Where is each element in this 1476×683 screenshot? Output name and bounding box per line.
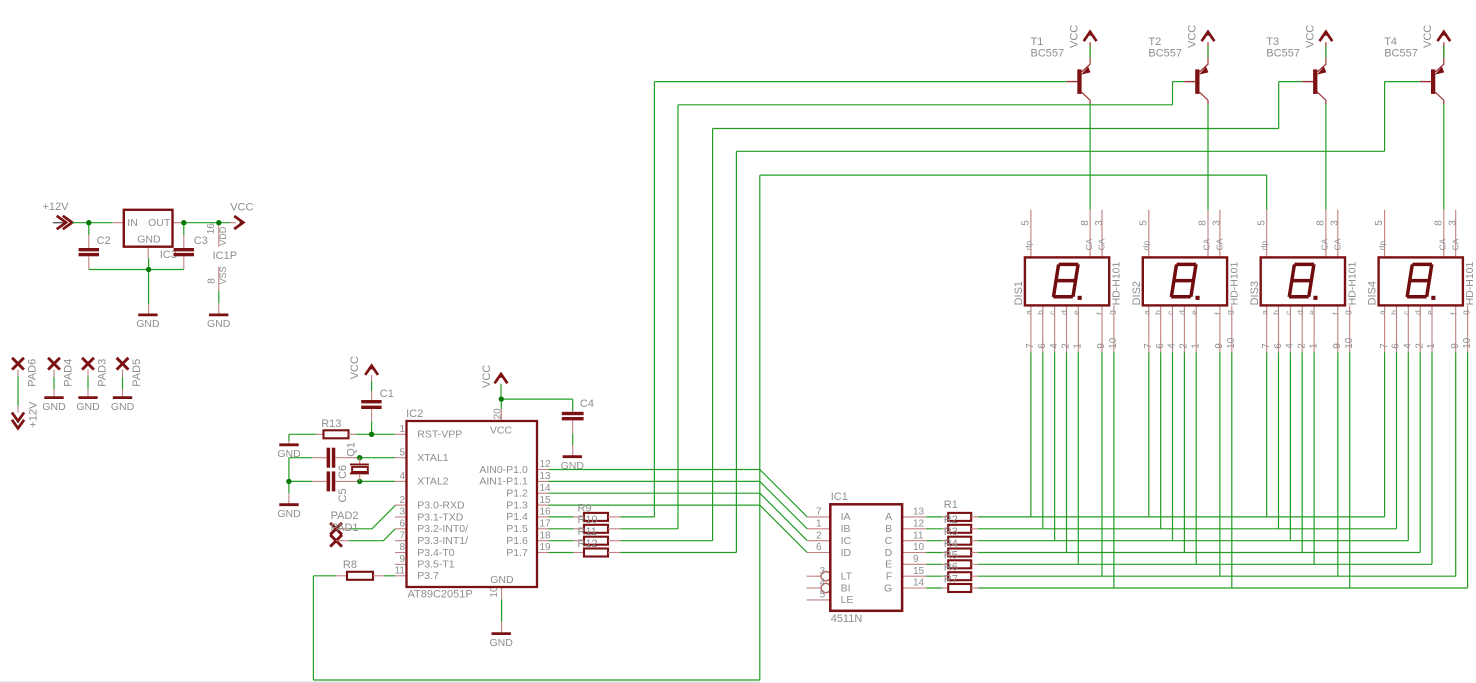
svg-text:8: 8: [1080, 220, 1091, 226]
svg-text:P1.5: P1.5: [506, 523, 528, 535]
svg-text:PAD4: PAD4: [63, 359, 75, 387]
wire net XTAL2: [289, 481, 395, 503]
svg-text:C1: C1: [380, 388, 394, 400]
svg-text:14: 14: [913, 578, 925, 589]
svg-text:CA: CA: [1202, 238, 1212, 250]
ground GND left of R13: [279, 443, 298, 446]
svg-text:E: E: [885, 559, 892, 571]
pad PAD4: [48, 358, 74, 397]
svg-text:PAD6: PAD6: [27, 359, 39, 387]
svg-text:d: d: [1295, 310, 1305, 315]
svg-text:8: 8: [1316, 220, 1327, 226]
svg-text:GND: GND: [137, 234, 161, 246]
wire IC2 pin10 to GND: [501, 599, 503, 632]
capacitor C5: [312, 471, 357, 502]
resistor R11: [574, 526, 621, 545]
svg-text:GND: GND: [490, 637, 514, 649]
transistor T1 BC557: [1031, 36, 1091, 104]
svg-text:ID: ID: [841, 547, 852, 559]
svg-text:CA: CA: [1332, 238, 1342, 250]
svg-text:OUT: OUT: [148, 217, 171, 229]
wire T2 emitter VCC segment: [1207, 46, 1209, 58]
junction RST/C1/R13: [369, 432, 374, 437]
svg-text:7: 7: [1025, 343, 1036, 349]
svg-text:1: 1: [816, 519, 822, 530]
svg-text:+12V: +12V: [28, 401, 40, 428]
junction VCC/C4: [499, 396, 504, 401]
ground GND under PAD5: [113, 396, 132, 399]
svg-text:14: 14: [540, 483, 552, 494]
wire R9 to T1 base: [620, 82, 1067, 517]
svg-text:XTAL2: XTAL2: [417, 476, 448, 488]
svg-text:PAD2: PAD2: [331, 510, 359, 522]
svg-text:3: 3: [1330, 220, 1341, 226]
svg-text:e: e: [1425, 310, 1435, 315]
svg-text:BC557: BC557: [1384, 48, 1418, 60]
svg-text:LE: LE: [841, 594, 854, 606]
junction VCC/C3: [181, 220, 186, 225]
svg-text:DIS4: DIS4: [1367, 281, 1379, 305]
svg-text:HD-H101: HD-H101: [1346, 261, 1358, 305]
window border artifact: [0, 681, 760, 683]
svg-text:3: 3: [399, 507, 405, 518]
svg-text:4: 4: [1403, 343, 1414, 349]
resistor R9: [574, 502, 621, 521]
svg-text:4: 4: [399, 471, 405, 482]
svg-text:6: 6: [1037, 343, 1048, 349]
wire net segment g bus: [978, 352, 1468, 588]
transistor T2 BC557: [1148, 36, 1208, 104]
ground GND under C4: [563, 455, 582, 458]
supply VCC arrow above IC2: [481, 365, 507, 388]
svg-text:P1.7: P1.7: [506, 547, 528, 559]
wire net P3.7/dp: [313, 175, 1266, 680]
svg-text:e: e: [1071, 310, 1081, 315]
display DIS1 HD-H101: [1013, 210, 1123, 352]
junction GND net: [146, 267, 151, 272]
svg-text:VCC: VCC: [1186, 25, 1198, 48]
wire net RST: [356, 422, 395, 435]
wire T1 collector to display CA: [1089, 104, 1091, 210]
svg-text:IC2: IC2: [406, 408, 423, 420]
svg-text:1: 1: [1190, 343, 1201, 349]
svg-text:DIS1: DIS1: [1013, 281, 1025, 305]
svg-text:+12V: +12V: [43, 201, 70, 213]
svg-text:GND: GND: [490, 574, 514, 586]
svg-text:CA: CA: [1215, 238, 1225, 250]
svg-text:a: a: [1377, 310, 1387, 315]
wire IC1 D to R4: [926, 552, 943, 554]
wire net P1.3 to 4511 input: [549, 505, 808, 552]
svg-text:4: 4: [820, 578, 826, 589]
svg-text:4511N: 4511N: [831, 613, 863, 625]
svg-text:PAD3: PAD3: [97, 359, 109, 387]
wire IC1 B to R2: [926, 528, 943, 530]
svg-text:IC1: IC1: [831, 491, 848, 503]
svg-text:4: 4: [1285, 343, 1296, 349]
decoder IC1 4511N: [807, 491, 927, 625]
svg-text:2: 2: [1297, 343, 1308, 349]
wire net VCC regulator out: [181, 222, 230, 224]
svg-text:a: a: [1259, 310, 1269, 315]
svg-text:VCC: VCC: [230, 201, 253, 213]
wire T3 collector to display CA: [1325, 104, 1327, 210]
svg-text:e: e: [1307, 310, 1317, 315]
svg-text:Q1: Q1: [345, 442, 357, 457]
svg-text:CA: CA: [1320, 238, 1330, 250]
wire R12 to T4 base: [620, 82, 1420, 553]
svg-text:A: A: [885, 511, 892, 523]
supply +12V down arrow: [12, 401, 40, 428]
resistor R12: [574, 538, 621, 557]
ground GND under IC1P: [209, 313, 228, 316]
wire net segment d bus: [978, 352, 1420, 552]
wire net P1.0 to 4511 input: [549, 470, 808, 517]
svg-text:HD-H101: HD-H101: [1228, 261, 1240, 305]
supply VCC arrow at T3: [1304, 25, 1332, 48]
svg-text:R1: R1: [944, 499, 958, 511]
svg-text:10: 10: [1226, 337, 1237, 349]
pad PAD5: [117, 358, 143, 397]
pad PAD6: [12, 358, 38, 413]
svg-text:g: g: [1342, 310, 1352, 315]
svg-text:BC557: BC557: [1031, 48, 1065, 60]
capacitor C4: [562, 398, 594, 455]
svg-text:XTAL1: XTAL1: [417, 452, 448, 464]
wire net segment e bus: [978, 352, 1432, 564]
svg-text:dp: dp: [1023, 241, 1033, 251]
svg-text:AIN0-P1.0: AIN0-P1.0: [479, 464, 528, 476]
wire net XTAL1: [289, 458, 395, 482]
svg-text:IC1P: IC1P: [213, 250, 237, 262]
svg-text:CA: CA: [1438, 238, 1448, 250]
svg-text:HD-H101: HD-H101: [1464, 261, 1476, 305]
svg-text:11: 11: [395, 566, 406, 577]
svg-text:PAD5: PAD5: [131, 359, 143, 387]
svg-text:DIS2: DIS2: [1131, 281, 1143, 305]
svg-text:9: 9: [1214, 343, 1225, 349]
wire PAD1 to P3.2: [349, 529, 396, 541]
svg-text:VCC: VCC: [349, 356, 361, 379]
svg-text:IB: IB: [841, 523, 851, 535]
svg-text:T1: T1: [1031, 36, 1044, 48]
ground GND under PAD3: [78, 396, 97, 399]
wire R13 to GND: [289, 434, 316, 443]
svg-text:C4: C4: [580, 398, 594, 410]
svg-text:HD-H101: HD-H101: [1111, 261, 1123, 305]
svg-text:1: 1: [1308, 343, 1319, 349]
svg-text:1: 1: [1073, 343, 1084, 349]
resistor R13: [316, 418, 356, 438]
svg-text:VCC: VCC: [481, 365, 493, 388]
svg-text:G: G: [884, 582, 892, 594]
svg-text:9: 9: [1450, 343, 1461, 349]
svg-text:16: 16: [540, 507, 552, 518]
svg-text:C3: C3: [194, 235, 208, 247]
resistor R6: [943, 562, 978, 581]
svg-text:7: 7: [399, 530, 405, 541]
svg-text:2: 2: [1061, 343, 1072, 349]
svg-text:5: 5: [820, 590, 826, 601]
svg-text:e: e: [1189, 310, 1199, 315]
transistor T4 BC557: [1384, 36, 1444, 104]
svg-text:20: 20: [493, 408, 504, 420]
svg-text:7: 7: [1261, 343, 1272, 349]
resistor R5: [943, 550, 978, 569]
svg-text:T3: T3: [1266, 36, 1279, 48]
svg-text:8: 8: [1434, 220, 1445, 226]
svg-text:VDD: VDD: [218, 226, 228, 246]
svg-text:8: 8: [1198, 220, 1209, 226]
voltage regulator IC3: [113, 210, 182, 261]
svg-text:1: 1: [1426, 343, 1437, 349]
microcontroller IC2 AT89C2051P: [395, 408, 551, 601]
junction +12V/C2: [86, 220, 91, 225]
power pins IC1P (VSS pin 8): [207, 266, 229, 313]
svg-text:3: 3: [1448, 220, 1459, 226]
display DIS2 HD-H101: [1131, 210, 1241, 352]
crystal Q1: [345, 442, 369, 481]
svg-text:P3.2-INT0/: P3.2-INT0/: [417, 523, 468, 535]
svg-text:GND: GND: [111, 401, 135, 413]
svg-text:5: 5: [1021, 220, 1032, 226]
svg-text:PAD1: PAD1: [331, 522, 359, 534]
svg-text:7: 7: [816, 507, 822, 518]
svg-text:AIN1-P1.1: AIN1-P1.1: [479, 476, 528, 488]
resistor R10: [574, 514, 621, 533]
pad PAD3: [82, 358, 108, 397]
wire net P1.2 to 4511 input: [549, 493, 808, 541]
svg-text:P1.2: P1.2: [506, 488, 528, 500]
svg-text:15: 15: [540, 495, 552, 506]
svg-text:b: b: [1389, 310, 1399, 315]
svg-text:P3.5-T1: P3.5-T1: [417, 559, 455, 571]
svg-text:R13: R13: [321, 418, 341, 430]
svg-text:GND: GND: [76, 401, 100, 413]
wire IC2 P1.6 to R11: [549, 540, 574, 542]
svg-text:5: 5: [1256, 220, 1267, 226]
supply VCC arrow at T4: [1422, 25, 1450, 48]
svg-text:dp: dp: [1377, 241, 1387, 251]
junction VCC/IC1P: [216, 220, 221, 225]
wire net segment c bus: [978, 352, 1409, 540]
svg-text:VCC: VCC: [490, 425, 513, 437]
ground GND under regulator: [138, 313, 157, 316]
wire T1 emitter VCC segment: [1089, 46, 1091, 58]
svg-text:VCC: VCC: [1422, 25, 1434, 48]
resistor R4: [943, 538, 978, 557]
svg-text:a: a: [1141, 310, 1151, 315]
svg-text:P1.4: P1.4: [506, 511, 528, 523]
svg-text:P3.4-T0: P3.4-T0: [417, 547, 455, 559]
wire T4 collector to display CA: [1443, 104, 1445, 210]
svg-text:IA: IA: [841, 511, 851, 523]
svg-text:dp: dp: [1141, 241, 1151, 251]
svg-text:IC: IC: [841, 535, 852, 547]
svg-text:11: 11: [913, 530, 924, 541]
wire net VCC at IC2: [501, 384, 573, 411]
svg-text:dp: dp: [1259, 241, 1269, 251]
svg-text:g: g: [1460, 310, 1470, 315]
wire PAD2 to P3.0: [349, 505, 396, 529]
svg-text:IN: IN: [127, 217, 138, 229]
wire T4 emitter VCC segment: [1443, 46, 1445, 58]
svg-text:P3.0-RXD: P3.0-RXD: [417, 499, 465, 511]
svg-text:GND: GND: [277, 508, 301, 520]
svg-text:6: 6: [1391, 343, 1402, 349]
junction XTAL1/crystal: [357, 455, 362, 460]
svg-text:CA: CA: [1097, 238, 1107, 250]
svg-text:7: 7: [1379, 343, 1390, 349]
wire IC2 P1.7 to R12: [549, 552, 574, 554]
svg-text:b: b: [1271, 310, 1281, 315]
svg-text:CA: CA: [1450, 238, 1460, 250]
capacitor C6: [312, 448, 357, 479]
svg-text:P3.1-TXD: P3.1-TXD: [417, 511, 464, 523]
svg-text:a: a: [1024, 310, 1034, 315]
wire net segment b bus: [978, 352, 1397, 529]
svg-text:6: 6: [1155, 343, 1166, 349]
wire IC1 F to R6: [926, 575, 943, 577]
wire T3 emitter VCC segment: [1325, 46, 1327, 58]
svg-text:VSS: VSS: [218, 266, 228, 284]
svg-text:B: B: [885, 523, 892, 535]
supply +12V arrow: [43, 201, 73, 229]
wire net segment f bus: [978, 352, 1456, 576]
svg-text:6: 6: [1273, 343, 1284, 349]
svg-text:5: 5: [1374, 220, 1385, 226]
svg-text:18: 18: [540, 530, 552, 541]
svg-text:P1.3: P1.3: [506, 499, 528, 511]
power pins IC1P (VDD pin 16): [206, 223, 237, 262]
svg-text:RST-VPP: RST-VPP: [417, 429, 462, 441]
svg-text:4: 4: [1049, 343, 1060, 349]
wire IC1 G to R7: [926, 587, 943, 589]
svg-text:8: 8: [207, 278, 218, 284]
svg-text:T4: T4: [1384, 36, 1397, 48]
svg-text:D: D: [885, 547, 893, 559]
wire IC1 C to R3: [926, 540, 943, 542]
svg-text:BC557: BC557: [1266, 48, 1300, 60]
svg-text:b: b: [1153, 310, 1163, 315]
svg-text:F: F: [886, 571, 892, 583]
resistor R8: [336, 559, 384, 580]
wire IC1 E to R5: [926, 563, 943, 565]
svg-text:2: 2: [1179, 343, 1190, 349]
svg-text:10: 10: [913, 542, 925, 553]
svg-text:GND: GND: [207, 318, 231, 330]
svg-text:VCC: VCC: [1304, 25, 1316, 48]
svg-text:13: 13: [540, 471, 552, 482]
svg-text:10: 10: [1344, 337, 1355, 349]
svg-text:d: d: [1413, 310, 1423, 315]
svg-text:9: 9: [1096, 343, 1107, 349]
resistor R7: [943, 573, 978, 592]
svg-text:9: 9: [1332, 343, 1343, 349]
svg-text:GND: GND: [42, 401, 66, 413]
svg-text:P3.3-INT1/: P3.3-INT1/: [417, 535, 468, 547]
svg-text:CA: CA: [1084, 238, 1094, 250]
svg-text:C: C: [885, 535, 893, 547]
svg-text:3: 3: [820, 566, 826, 577]
svg-text:C6: C6: [337, 465, 349, 479]
svg-text:d: d: [1177, 310, 1187, 315]
wire net GND regulator: [89, 225, 184, 314]
svg-text:g: g: [1107, 310, 1117, 315]
svg-text:13: 13: [913, 507, 925, 518]
pad PAD2: [330, 510, 358, 535]
svg-text:17: 17: [540, 519, 552, 530]
svg-text:b: b: [1035, 310, 1045, 315]
svg-text:12: 12: [913, 519, 925, 530]
junction C5/C6 gnd: [286, 479, 291, 484]
capacitor C3: [174, 235, 208, 270]
display DIS3 HD-H101: [1249, 210, 1359, 352]
svg-text:C2: C2: [97, 235, 111, 247]
svg-text:2: 2: [1414, 343, 1425, 349]
svg-text:15: 15: [913, 566, 925, 577]
transistor T3 BC557: [1266, 36, 1326, 104]
svg-text:1: 1: [399, 424, 405, 435]
display DIS4 HD-H101: [1367, 210, 1476, 352]
wire IC2 P1.4 to R9: [549, 516, 574, 518]
svg-text:12: 12: [540, 459, 552, 470]
svg-text:g: g: [1224, 310, 1234, 315]
svg-text:19: 19: [540, 542, 552, 553]
supply VCC arrow at T1: [1069, 25, 1097, 48]
wire R11 to T3 base: [620, 82, 1302, 541]
svg-text:7: 7: [1143, 343, 1154, 349]
wire IC1 A to R1: [926, 516, 943, 518]
svg-text:P1.6: P1.6: [506, 535, 528, 547]
svg-text:16: 16: [206, 223, 217, 235]
ground GND below C5: [279, 503, 298, 506]
capacitor C2: [79, 235, 111, 270]
wire IC2 P1.5 to R10: [549, 528, 574, 530]
svg-text:AT89C2051P: AT89C2051P: [408, 589, 473, 601]
wire R10 to T2 base: [620, 82, 1184, 529]
svg-text:T2: T2: [1148, 36, 1161, 48]
svg-text:C5: C5: [337, 488, 349, 502]
svg-text:P3.7: P3.7: [417, 570, 439, 582]
ground GND under IC2: [492, 632, 511, 635]
svg-text:2: 2: [816, 530, 822, 541]
capacitor C1: [361, 375, 394, 421]
svg-text:d: d: [1059, 310, 1069, 315]
svg-text:BI: BI: [841, 582, 851, 594]
pad PAD1: [330, 522, 358, 547]
svg-text:3: 3: [1212, 220, 1223, 226]
svg-text:9: 9: [399, 554, 405, 565]
svg-text:3: 3: [1094, 220, 1105, 226]
svg-text:10: 10: [1462, 337, 1473, 349]
svg-text:10: 10: [1108, 337, 1119, 349]
wire net P1.1 to 4511 input: [549, 481, 808, 528]
svg-text:5: 5: [1138, 220, 1149, 226]
svg-text:R8: R8: [343, 559, 357, 571]
resistor R1: [943, 499, 978, 521]
ground GND under PAD4: [44, 396, 63, 399]
supply VCC arrow right: [230, 201, 253, 229]
svg-text:5: 5: [399, 447, 405, 458]
svg-text:4: 4: [1167, 343, 1178, 349]
wire net segment a bus: [978, 352, 1385, 517]
svg-text:6: 6: [399, 519, 405, 530]
svg-text:8: 8: [399, 542, 405, 553]
resistor R3: [943, 526, 978, 545]
svg-text:2: 2: [399, 495, 405, 506]
svg-text:BC557: BC557: [1148, 48, 1182, 60]
